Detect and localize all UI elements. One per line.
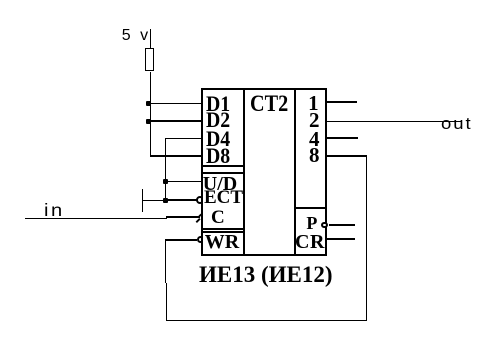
wire to WR (thick)	[165, 239, 197, 241]
label output 1	[308, 93, 319, 114]
label U/D	[203, 174, 237, 194]
wire in (left thin segment)	[25, 218, 167, 219]
feedback wire left vertical	[165, 239, 167, 284]
wire to D1	[150, 103, 202, 104]
IC divider left column	[243, 90, 245, 254]
wire resistor to D8	[150, 72, 151, 157]
inversion circle at P pin	[321, 222, 328, 229]
junction dot at U/D wire	[163, 179, 168, 184]
label CT2	[250, 92, 288, 115]
P/CR sub-box top edge	[296, 207, 325, 209]
junction dot at D2 wire	[146, 119, 151, 124]
label output 2	[309, 110, 320, 131]
wire to D8	[150, 155, 203, 157]
feedback wire right vertical	[366, 155, 368, 322]
label out	[441, 115, 473, 132]
wire ECT net left segment	[142, 200, 165, 201]
label D1	[206, 93, 230, 115]
dynamic input mark at C	[194, 210, 206, 224]
wire D4 tie down to U/D and ECT	[165, 138, 166, 201]
label D8	[206, 145, 230, 167]
label IC type ИЕ13 (ИЕ12)	[199, 263, 333, 286]
label ECT	[204, 188, 243, 207]
wire output 1	[327, 101, 357, 103]
wire in to C (thick segment)	[166, 216, 200, 218]
label in	[44, 202, 65, 220]
wire to D4	[165, 138, 202, 139]
wire output 2 (to out)	[327, 121, 462, 122]
WR sub-box top edge	[203, 231, 244, 234]
feedback wire left vertical lower part	[166, 283, 168, 321]
wire to U/D	[165, 181, 202, 182]
IC U1 outer box	[201, 88, 327, 256]
terminal bar (left end of ECT net)	[142, 189, 143, 212]
inversion circle at ECT pin	[196, 196, 204, 204]
resistor R1	[145, 48, 154, 71]
inversion circle at WR pin	[197, 236, 204, 243]
label CR	[295, 232, 325, 252]
label output 8	[309, 145, 320, 166]
label D2	[206, 109, 230, 131]
label WR	[205, 232, 239, 252]
junction dot at D1 wire	[146, 101, 151, 106]
wire output 4	[327, 137, 359, 138]
label 5 v	[122, 28, 148, 44]
label output 4	[309, 129, 320, 150]
wire output 8 (to feedback)	[327, 155, 367, 157]
wire to D2	[150, 120, 202, 121]
control sub-box top edge	[203, 172, 244, 174]
feedback wire bottom	[166, 320, 368, 321]
wire CR	[327, 238, 356, 240]
label P	[306, 214, 317, 232]
wire P	[329, 224, 355, 226]
control sub-box bottom edge	[203, 228, 244, 230]
label D4	[206, 128, 230, 150]
wire 5V supply to resistor	[150, 29, 151, 49]
D-register sub-box bottom edge	[203, 165, 244, 167]
label C	[211, 208, 225, 227]
IC divider right column	[294, 90, 296, 254]
junction dot at ECT wire	[163, 198, 168, 203]
wire to ECT (thick)	[165, 199, 197, 201]
